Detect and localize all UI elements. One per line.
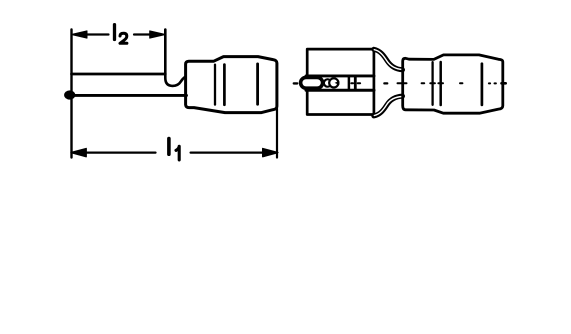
- side view: insulation sleeve outline: [186, 57, 277, 113]
- top view: entry funnel pill: [301, 77, 323, 88]
- dimension l2: left shaft: [86, 33, 109, 35]
- dimension l1: label letter l: [167, 139, 171, 155]
- top view: crimp bar 1: [348, 77, 351, 89]
- side view: rounded blade tip blob: [64, 90, 75, 99]
- dimension l1: right shaft: [191, 152, 264, 154]
- top view: sleeve rib tick 3: [481, 64, 484, 105]
- top view: crimp bar 2: [354, 77, 357, 89]
- side view: receptacle bottom edge: [66, 94, 187, 97]
- top view: detent notch wedge: [335, 81, 340, 85]
- dimension l2: left arrowhead: [71, 31, 87, 38]
- top view: centerline dash crossing sleeve right edge: [502, 82, 506, 85]
- top view: insulation sleeve outline: [403, 55, 503, 113]
- top view: upper transition neck double-curve: [374, 49, 403, 70]
- top view: seam slot bottom line: [306, 89, 374, 92]
- top view: centerline dash between bars: [351, 82, 353, 84]
- top view: centerline dash crossing sleeve left edge: [398, 82, 407, 84]
- side view: sleeve rib tick 2: [223, 65, 226, 105]
- side view: l1 right extension line: [276, 109, 278, 158]
- top view: lower transition neck double-curve: [374, 96, 403, 116]
- top view: centerline dash inside sleeve left: [422, 82, 425, 84]
- side view: receptacle top edge: [72, 73, 166, 76]
- side view: sleeve rib tick 1: [214, 65, 216, 105]
- top view: centerline cross dash at tick 1: [430, 82, 435, 84]
- top view: receptacle body rectangle: [307, 49, 374, 114]
- top view: centerline dash mid sleeve: [460, 82, 462, 84]
- dimension l1: right arrowhead: [263, 149, 278, 157]
- top view: detent C-arc: [324, 79, 330, 86]
- top view: seam slot top line: [306, 74, 374, 77]
- top view: centerline dash right of bars: [358, 82, 360, 84]
- dimension l2: label subscript 2: [120, 33, 127, 43]
- top view: detent circle: [329, 78, 338, 87]
- dimension l1: left arrowhead: [71, 149, 86, 157]
- dimension l1: label subscript 1: [176, 146, 179, 160]
- top view: centerline cross dash at tick 2: [438, 82, 443, 84]
- dimension l2: label letter l: [113, 25, 116, 40]
- dimension l2: right arrowhead: [150, 31, 166, 38]
- top view: centerline dash at neck: [384, 82, 387, 84]
- dimension l2: right shaft: [134, 33, 151, 35]
- top view: centerline dash left of pill: [294, 82, 297, 84]
- top view: sleeve rib tick 2: [439, 62, 442, 105]
- side view: l2 right extension line with J-transition curve: [165, 30, 185, 86]
- side view: left extension line / blade left edge: [70, 30, 72, 158]
- top view: centerline dot 1 right: [489, 82, 490, 84]
- dimension l1: left shaft: [85, 152, 156, 154]
- top view: sleeve rib tick 1: [431, 62, 433, 105]
- side view: sleeve rib tick 3: [256, 64, 259, 104]
- top view: centerline dot 2 right: [495, 82, 496, 84]
